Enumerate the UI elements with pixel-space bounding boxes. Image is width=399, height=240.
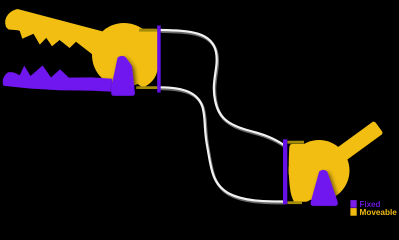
rotor2 disc	[289, 140, 350, 201]
link top rotor2	[288, 141, 305, 144]
wire bottom	[161, 87, 283, 201]
rotor2 hub plate	[289, 144, 317, 202]
wedge pointer rotor1	[111, 56, 135, 96]
wedge pointer rotor2	[311, 170, 338, 206]
svg-text:Moveable: Moveable	[360, 208, 398, 217]
link bottom rotor2	[288, 201, 303, 204]
anchor bar rotor2	[283, 139, 287, 204]
link top rotor1	[139, 29, 159, 32]
legend swatch moveable	[350, 208, 356, 216]
upper jaw	[5, 9, 110, 57]
anchor bar rotor1	[157, 26, 161, 93]
wire top	[161, 30, 284, 145]
rotor1 disc	[92, 23, 156, 87]
rotor2 arm	[314, 121, 383, 177]
wire bottom shadow	[162, 89, 284, 203]
rotor1 hub plate	[115, 29, 159, 88]
legend swatch fixed	[350, 200, 356, 208]
lower jaw	[3, 66, 113, 92]
wire top shadow	[162, 32, 285, 147]
link bottom rotor1	[136, 86, 159, 89]
